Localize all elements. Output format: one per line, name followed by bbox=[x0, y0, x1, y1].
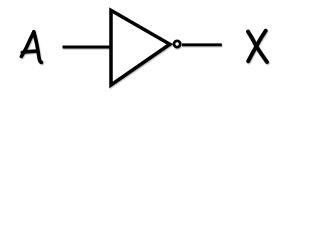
wire input bbox=[63, 46, 111, 49]
inverter gate U1 triangle bbox=[111, 10, 170, 85]
inversion bubble bbox=[174, 41, 180, 47]
node A bbox=[21, 32, 41, 63]
wire output bbox=[182, 43, 222, 46]
node X bbox=[248, 31, 267, 62]
